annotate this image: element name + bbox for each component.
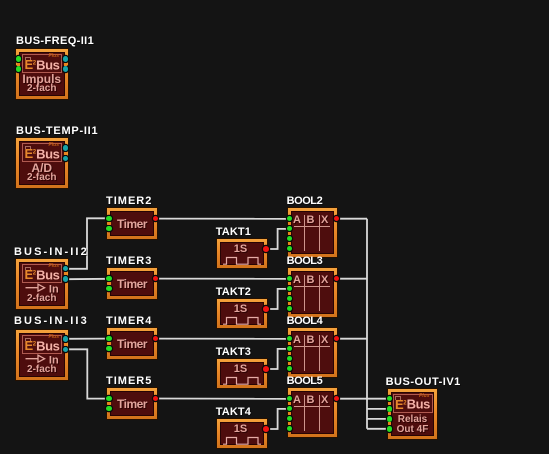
BUS-TEMP-II1 right pins — [63, 145, 69, 151]
E2Bus Plus logo — [22, 143, 62, 162]
block BUS-IN-II2 title — [14, 247, 89, 258]
wire BUS-IN-II2 out1 to TIMER2 in — [67, 218, 109, 268]
block BOOL4 body — [288, 328, 338, 377]
block TAKT3 title — [216, 347, 251, 358]
pulse waveform — [222, 436, 262, 445]
pulse waveform — [222, 316, 262, 325]
BUS-IN-II2 right pins — [63, 266, 69, 272]
E2Bus Plus logo — [22, 54, 62, 73]
BUS-IN-II3 right pins — [63, 336, 69, 342]
BUS-FREQ-II1 left pins — [16, 56, 22, 62]
block BUS-IN-II2 body — [16, 259, 68, 310]
block BOOL2 title — [287, 196, 323, 207]
wire BUS-IN-II3 out2 to TIMER5 in — [67, 349, 109, 398]
block BUS-TEMP-II1 body — [16, 138, 68, 188]
BOOL5 output pin — [334, 396, 340, 402]
block TAKT1 title — [216, 227, 251, 238]
wire trunk to BUS-OUT in4 — [367, 428, 388, 430]
BOOL3 input pins — [287, 276, 293, 282]
TAKT1 output pin — [263, 246, 269, 252]
BUS-FREQ-II1 right pins — [63, 56, 69, 62]
block BUS-TEMP-II1 title — [16, 126, 98, 137]
block TIMER5 title — [106, 376, 152, 387]
block TAKT1 body — [217, 239, 267, 268]
BOOL3 output pin — [334, 276, 340, 282]
block TIMER3 title — [106, 256, 152, 267]
wire BOOL5 out to BUS-OUT in1 — [336, 398, 388, 400]
wire BOOL4 out to trunk — [336, 338, 367, 340]
block BUS-FREQ-II1 body — [16, 49, 68, 100]
block TIMER2 body — [107, 208, 157, 239]
block BUS-IN-II3 body — [16, 330, 68, 381]
wire TAKT3 out to BOOL4 inB — [266, 349, 288, 369]
BOOL5 input pins — [287, 396, 293, 402]
block TIMER3 body — [107, 268, 157, 299]
block BOOL5 title — [287, 376, 323, 387]
block TIMER2 title — [106, 196, 152, 207]
block TAKT4 title — [216, 407, 251, 418]
block TIMER5 body — [107, 388, 157, 419]
block TAKT2 body — [217, 299, 267, 328]
block TIMER4 body — [107, 328, 157, 359]
TIMER3 pins — [106, 276, 112, 282]
TAKT4 output pin — [263, 426, 269, 432]
wire TIMER2 out to BOOL2 inA — [156, 218, 288, 220]
block TAKT3 body — [217, 359, 267, 388]
wire TAKT4 out to BOOL5 inB — [266, 409, 288, 429]
pulse waveform — [222, 256, 262, 265]
BOOL2 input pins — [287, 216, 293, 222]
wire TAKT1 out to BOOL2 inB — [266, 229, 288, 249]
TIMER2 pins — [106, 216, 112, 222]
wire BUS-IN-II2 out2 to TIMER3 in — [67, 278, 109, 280]
BUS-OUT-IV1 input pins — [387, 396, 393, 402]
wire TIMER5 out to BOOL5 inA — [156, 398, 288, 400]
wire trunk to BUS-OUT in3 — [367, 418, 388, 420]
wire trunk to BUS-OUT in2 — [367, 408, 388, 410]
block TAKT2 title — [216, 287, 251, 298]
TAKT3 output pin — [263, 366, 269, 372]
block BUS-OUT-IV1 title — [386, 377, 461, 388]
block BOOL3 title — [287, 256, 323, 267]
wire trunk vertical — [366, 219, 368, 429]
block BOOL4 title — [287, 316, 323, 327]
wire TAKT2 out to BOOL3 inB — [266, 289, 288, 309]
block BOOL5 body — [288, 388, 338, 437]
TIMER5 pins — [106, 396, 112, 402]
TAKT2 output pin — [263, 306, 269, 312]
wire BOOL3 out to trunk — [336, 278, 367, 280]
block BUS-OUT-IV1 body — [388, 389, 437, 439]
block BOOL3 body — [288, 268, 338, 317]
wire TIMER4 out to BOOL4 inA — [156, 338, 288, 340]
BOOL4 input pins — [287, 336, 293, 342]
pulse waveform — [222, 376, 262, 385]
E2Bus Plus logo — [22, 264, 62, 283]
E2Bus Plus logo — [393, 394, 433, 413]
E2Bus Plus logo — [22, 335, 62, 354]
BOOL2 output pin — [334, 216, 340, 222]
block BUS-IN-II3 title — [14, 316, 89, 327]
block BUS-FREQ-II1 title — [16, 36, 94, 47]
wire TIMER3 out to BOOL3 inA — [156, 278, 288, 280]
block TIMER4 title — [106, 316, 152, 327]
wire BUS-IN-II3 out1 to TIMER4 in — [67, 338, 109, 340]
wire BOOL2 out to trunk — [336, 218, 367, 220]
block TAKT4 body — [217, 419, 267, 448]
BOOL4 output pin — [334, 336, 340, 342]
TIMER4 pins — [106, 336, 112, 342]
block BOOL2 body — [288, 208, 338, 257]
